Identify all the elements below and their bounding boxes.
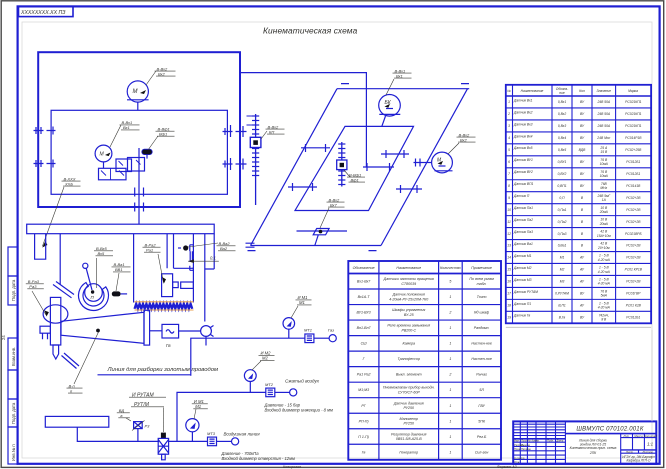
svg-text:24В 50А: 24В 50А xyxy=(596,124,610,128)
svg-text:РУ250: РУ250 xyxy=(403,406,414,410)
svg-text:ВВ1: ВВ1 xyxy=(115,267,123,272)
svg-text:РС0141В: РС0141В xyxy=(626,184,641,188)
svg-text:7: 7 xyxy=(508,172,510,176)
shaft mid with vertical xyxy=(363,163,394,171)
svg-text:Трансфессор: Трансфессор xyxy=(398,357,420,361)
svg-text:ВУ1-ВУ3: ВУ1-ВУ3 xyxy=(357,311,371,315)
air branch riser M2 xyxy=(177,392,266,441)
label RUTAM xyxy=(129,392,166,432)
svg-text:Датчик Ва1: Датчик Ва1 xyxy=(513,242,533,246)
svg-text:РС02+2В: РС02+2В xyxy=(626,280,641,284)
svg-text:5: 5 xyxy=(508,148,510,152)
label Va2 xyxy=(188,241,236,251)
svg-text:Реле времени замыкания: Реле времени замыкания xyxy=(387,324,430,328)
svg-text:Генератор: Генератор xyxy=(399,450,418,454)
svg-text:Регулятор давления: Регулятор давления xyxy=(391,432,427,436)
fitting MT2 xyxy=(266,388,297,397)
svg-text:РС01ГВР: РС01ГВР xyxy=(626,292,641,296)
svg-text:РС012Б1: РС012Б1 xyxy=(626,160,640,164)
svg-text:5Л: 5Л xyxy=(479,388,484,392)
svg-text:10мА: 10мА xyxy=(600,174,609,178)
svg-text:10: 10 xyxy=(507,208,511,212)
svg-text:Вх5: Вх5 xyxy=(98,251,106,256)
supply pipe xyxy=(77,427,159,441)
label inner gauge xyxy=(110,120,140,147)
svg-text:Датчик ВП1: Датчик ВП1 xyxy=(513,182,534,186)
label Ra1 xyxy=(143,243,164,283)
bearing stubs right edges xyxy=(223,125,247,170)
svg-text:0,Вх3: 0,Вх3 xyxy=(558,124,566,128)
svg-text:Датчик положения: Датчик положения xyxy=(392,293,425,297)
label Vx5 xyxy=(94,246,113,288)
label gearbox lower-left xyxy=(43,176,81,246)
motor M top xyxy=(127,81,149,110)
svg-text:Подп. дата: Подп. дата xyxy=(11,402,16,424)
top-left stamp box xyxy=(19,6,74,16)
svg-text:РП-П): РП-П) xyxy=(359,419,369,423)
clutch block upper xyxy=(116,158,145,172)
svg-text:Датчик Па3: Датчик Па3 xyxy=(513,230,533,234)
svg-text:Яд шкаф: Яд шкаф xyxy=(473,311,489,315)
pivot link xyxy=(83,263,88,268)
svg-text:АУ: АУ xyxy=(579,268,585,272)
svg-text:2: 2 xyxy=(507,112,510,116)
supply rectangle xyxy=(45,416,109,427)
svg-text:Вх2: Вх2 xyxy=(460,137,468,142)
label chain sensor xyxy=(261,124,285,139)
svg-text:РС02+2В: РС02+2В xyxy=(626,208,641,212)
inner chain with sensor xyxy=(338,142,345,187)
svg-text:М2: М2 xyxy=(560,268,565,272)
svg-text:0,Вх4: 0,Вх4 xyxy=(558,136,566,140)
svg-text:1: 1 xyxy=(449,388,451,392)
svg-text:18: 18 xyxy=(507,304,511,308)
svg-text:№: № xyxy=(507,89,511,93)
svg-text:Датчик Вх4: Датчик Вх4 xyxy=(513,134,533,138)
svg-text:Подп. дата: Подп. дата xyxy=(11,279,16,301)
svg-text:Рег.Б: Рег.Б xyxy=(477,435,487,439)
base bar xyxy=(27,224,215,234)
svg-text:0,ВУ2: 0,ВУ2 xyxy=(558,172,567,176)
svg-text:Иванов: Иванов xyxy=(521,443,530,447)
svg-text:РС014Р1В: РС014Р1В xyxy=(625,136,642,140)
svg-text:Копировал: Копировал xyxy=(283,465,301,469)
svg-text:0,ВУ1: 0,ВУ1 xyxy=(558,160,567,164)
svg-text:19: 19 xyxy=(507,316,511,320)
svg-text:Датчик Вх1: Датчик Вх1 xyxy=(513,98,533,102)
svg-text:Датчики частоты вращения: Датчики частоты вращения xyxy=(383,277,434,281)
svg-text:М: М xyxy=(133,89,138,95)
svg-text:8: 8 xyxy=(508,184,510,188)
svg-text:20мА: 20мА xyxy=(599,210,609,214)
svg-text:РС021КП1: РС021КП1 xyxy=(625,124,641,128)
svg-text:РС01 КР1В: РС01 КР1В xyxy=(625,268,643,272)
svg-text:Взам.инв.: Взам.инв. xyxy=(11,347,16,366)
outer parallelogram xyxy=(251,89,470,246)
svg-text:РУТ/М: РУТ/М xyxy=(134,402,150,408)
svg-text:4-20 мА: 4-20 мА xyxy=(598,258,611,262)
svg-text:Кинематическая прин. схема: Кинематическая прин. схема xyxy=(570,446,617,450)
svg-text:Сжатый воздух: Сжатый воздух xyxy=(285,377,320,383)
shaft crossing ticks bottom xyxy=(135,188,144,212)
svg-text:Вф1: Вф1 xyxy=(159,132,167,137)
svg-text:РС021ВРБ: РС021ВРБ xyxy=(625,232,642,236)
svg-text:24В Мос: 24В Мос xyxy=(596,136,610,140)
svg-text:Камера: Камера xyxy=(402,342,415,346)
gas line riser xyxy=(191,338,305,376)
svg-text:4-20 мА: 4-20 мА xyxy=(598,306,611,310)
svg-text:СШ: СШ xyxy=(361,342,368,346)
gearbox outer housing xyxy=(38,52,240,207)
svg-text:1:1: 1:1 xyxy=(647,442,654,447)
svg-text:10мА: 10мА xyxy=(600,162,609,166)
svg-text:МНz: МНz xyxy=(600,186,607,190)
svg-text:Линия для разборки золотым: Линия для разборки золотым проводом xyxy=(107,367,219,373)
axis end dashes xyxy=(246,84,470,251)
svg-text:Датчик Па2: Датчик Па2 xyxy=(513,218,533,222)
small sensor Va1 xyxy=(112,291,127,296)
svg-text:Датчик РУТАМ: Датчик РУТАМ xyxy=(513,290,538,294)
svg-text:РС02+2В: РС02+2В xyxy=(626,244,641,248)
label sensor Vf1 xyxy=(148,127,175,151)
svg-text:0,Ва1: 0,Ва1 xyxy=(558,244,567,248)
left bracket xyxy=(40,326,50,333)
svg-text:Вх1А-Т: Вх1А-Т xyxy=(358,295,371,299)
generator box xyxy=(150,330,162,332)
svg-text:И РУТАМ: И РУТАМ xyxy=(132,392,154,398)
svg-text:Наименование: Наименование xyxy=(521,89,544,93)
svg-text:Рычаг: Рычаг xyxy=(476,373,487,377)
svg-text:МТ1: МТ1 xyxy=(304,328,312,333)
fitting MT3 xyxy=(208,437,239,446)
svg-text:Выкл. элемент: Выкл. элемент xyxy=(396,373,422,377)
cylinder Ra1 xyxy=(162,274,179,297)
title block xyxy=(513,421,656,464)
components table xyxy=(348,261,501,460)
svg-text:МТ2: МТ2 xyxy=(265,382,274,387)
label M1 air xyxy=(192,399,208,419)
svg-text:ВУ-25: ВУ-25 xyxy=(404,313,414,317)
svg-text:1: 1 xyxy=(449,326,451,330)
svg-text:14: 14 xyxy=(507,256,511,260)
svg-text:8 В: 8 В xyxy=(601,318,607,322)
svg-text:Датчик П: Датчик П xyxy=(513,194,530,198)
chain shaft with sensor xyxy=(247,114,260,205)
svg-text:Н.контр.: Н.контр. xyxy=(514,456,525,460)
svg-text:Количество: Количество xyxy=(440,266,460,270)
svg-text:Инв.№ п: Инв.№ п xyxy=(11,444,16,461)
svg-text:Формат А2: Формат А2 xyxy=(497,465,517,469)
svg-text:РС012Б1: РС012Б1 xyxy=(626,172,640,176)
label pump xyxy=(320,197,345,228)
svg-text:Ва2: Ва2 xyxy=(220,246,228,251)
svg-text:11: 11 xyxy=(507,220,511,224)
svg-text:0,Вх1: 0,Вх1 xyxy=(558,100,566,104)
svg-text:Датчик ВУ1: Датчик ВУ1 xyxy=(513,158,533,162)
label Va1 xyxy=(112,262,131,291)
label M2 xyxy=(252,351,275,370)
inner channel xyxy=(167,234,193,269)
svg-text:СТ80039: СТ80039 xyxy=(401,282,416,286)
svg-text:4-20 мА: 4-20 мА xyxy=(598,270,611,274)
svg-text:табл.: табл. xyxy=(477,282,487,286)
svg-text:ние: ние xyxy=(559,91,565,95)
svg-text:М1;М3: М1;М3 xyxy=(358,388,369,392)
gauge inner left xyxy=(95,145,112,168)
svg-text:Датчик Вх3: Датчик Вх3 xyxy=(513,122,533,126)
svg-text:П 1-П): П 1-П) xyxy=(358,435,369,439)
svg-text:Вх7: Вх7 xyxy=(330,202,338,207)
svg-text:2: 2 xyxy=(448,373,451,377)
svg-text:1: 1 xyxy=(449,404,451,408)
gearbox inner housing xyxy=(51,110,227,194)
valve bowtie xyxy=(117,85,658,469)
svg-text:1: 1 xyxy=(449,419,451,423)
svg-text:0,Па1: 0,Па1 xyxy=(558,208,567,212)
svg-text:Ра1: Ра1 xyxy=(146,248,153,253)
svg-text:РС01 К2В: РС01 К2В xyxy=(626,304,642,308)
svg-text:Значение: Значение xyxy=(597,89,612,93)
svg-text:0.1: 0.1 xyxy=(210,256,216,261)
pump bottom xyxy=(297,229,348,246)
gauge M1 gas xyxy=(283,318,295,339)
svg-text:0,Па3: 0,Па3 xyxy=(558,232,567,236)
end roller circle xyxy=(201,326,212,337)
svg-text:Примечание: Примечание xyxy=(471,266,492,270)
svg-text:15: 15 xyxy=(507,268,511,272)
sector gauge xyxy=(85,284,103,302)
svg-text:СУ70/СТ-60Р: СУ70/СТ-60Р xyxy=(398,391,421,395)
svg-text:15А+10м: 15А+10м xyxy=(597,234,611,238)
svg-text:Воздушная линия: Воздушная линия xyxy=(224,431,261,436)
svg-text:По всем узлам: По всем узлам xyxy=(469,277,494,281)
svg-text:15 В: 15 В xyxy=(600,150,608,154)
svg-text:Обозначение: Обозначение xyxy=(353,266,375,270)
svg-text:0,ВП1: 0,ВП1 xyxy=(557,184,566,188)
svg-text:Газ: Газ xyxy=(328,328,334,333)
svg-text:0,Вх2: 0,Вх2 xyxy=(558,112,566,116)
svg-text:ШВМУЛС 070102.001К: ШВМУЛС 070102.001К xyxy=(576,427,643,433)
svg-text:Вх2: Вх2 xyxy=(158,71,166,76)
label Ra3 xyxy=(26,279,46,315)
svg-text:Кол: Кол xyxy=(579,89,585,93)
svg-text:Изм: Изм xyxy=(514,438,519,442)
thick pipe under caption xyxy=(98,374,191,376)
svg-text:Сил-ген: Сил-ген xyxy=(475,450,489,454)
svg-text:Датчик Гв: Датчик Гв xyxy=(513,314,531,318)
svg-text:1: 1 xyxy=(449,357,451,361)
sector horseshoe xyxy=(79,283,109,311)
svg-text:ВДВ: ВДВ xyxy=(579,148,586,152)
svg-text:Датчик Вх2: Датчик Вх2 xyxy=(513,110,533,114)
svg-text:0,Па2: 0,Па2 xyxy=(558,220,567,224)
svg-text:Гв: Гв xyxy=(362,450,366,454)
clutch block lower xyxy=(99,168,127,180)
sensor Va2 with capacitor xyxy=(178,245,219,271)
svg-text:24В 50А: 24В 50А xyxy=(596,112,610,116)
svg-text:24В 50А: 24В 50А xyxy=(596,100,610,104)
label inner chain xyxy=(344,170,365,182)
svg-text:0,Вх5: 0,Вх5 xyxy=(558,148,566,152)
svg-text:М3: М3 xyxy=(560,280,565,284)
svg-text:Манометр: Манометр xyxy=(400,417,418,421)
right legs xyxy=(204,234,206,322)
svg-text:Марка: Марка xyxy=(628,89,638,93)
svg-text:Датчик Па1: Датчик Па1 xyxy=(513,206,533,210)
svg-text:Петров: Петров xyxy=(521,447,531,451)
svg-text:1: 1 xyxy=(449,450,451,454)
svg-text:13: 13 xyxy=(507,244,511,248)
label M1 gas xyxy=(291,295,312,318)
svg-text:РС02+25В: РС02+25В xyxy=(625,148,642,152)
svg-text:МТ3: МТ3 xyxy=(207,431,216,436)
svg-text:1: 1 xyxy=(508,100,510,104)
label VD xyxy=(117,408,131,421)
svg-text:Вх1: Вх1 xyxy=(123,125,130,130)
spindle column xyxy=(50,297,60,345)
svg-text:АУ: АУ xyxy=(579,256,585,260)
chain sensor box xyxy=(250,137,261,147)
svg-text:РУ250: РУ250 xyxy=(403,422,414,426)
svg-text:Ра1 Ра2: Ра1 Ра2 xyxy=(357,373,371,377)
gauge M2 xyxy=(244,370,256,393)
svg-text:2: 2 xyxy=(448,311,451,315)
lever diagonals xyxy=(53,282,74,298)
svg-text:3: 3 xyxy=(508,124,510,128)
svg-text:М1: М1 xyxy=(560,256,565,260)
svg-text:Кафедра ЛГП-О: Кафедра ЛГП-О xyxy=(626,458,651,462)
svg-text:Лит.: Лит. xyxy=(622,434,630,438)
leg 2 xyxy=(59,234,61,285)
svg-text:Масштаб: Масштаб xyxy=(644,434,657,438)
label motor top xyxy=(146,66,176,85)
svg-text:5: 5 xyxy=(449,280,451,284)
hatch strip xyxy=(135,304,193,309)
svg-text:Вф1: Вф1 xyxy=(351,177,359,182)
svg-text:М1: М1 xyxy=(299,300,305,305)
svg-text:РС021КП1: РС021КП1 xyxy=(625,112,641,116)
svg-text:Рандомн.: Рандомн. xyxy=(474,326,490,330)
svg-text:1: 1 xyxy=(449,435,451,439)
sensors table right xyxy=(506,85,651,323)
regulator RUT xyxy=(158,433,168,460)
svg-text:Р3: Р3 xyxy=(145,424,151,429)
fitting MT1 xyxy=(305,334,336,343)
svg-text:Датчик М1: Датчик М1 xyxy=(513,254,532,258)
svg-text:ХХБ: ХХБ xyxy=(64,181,73,186)
svg-text:№ докум.: № докум. xyxy=(528,438,540,442)
svg-text:Вх1: Вх1 xyxy=(396,73,403,78)
svg-text:1: 1 xyxy=(449,295,451,299)
svg-text:12: 12 xyxy=(507,232,511,236)
svg-text:2ПК: 2ПК xyxy=(589,451,597,455)
svg-text:Масса: Масса xyxy=(634,434,643,438)
svg-text:Датчик М2: Датчик М2 xyxy=(513,266,532,270)
gauge M1 air xyxy=(186,419,199,442)
svg-text:Настен-ное: Настен-ное xyxy=(471,342,492,346)
svg-text:5мА: 5мА xyxy=(601,294,608,298)
svg-text:Датчик П1: Датчик П1 xyxy=(513,302,531,306)
svg-text:6: 6 xyxy=(508,160,510,164)
svg-text:Входной диаметр инжекции -: Входной диаметр инжекции - 8 мм xyxy=(265,408,333,413)
svg-text:АУ: АУ xyxy=(579,304,585,308)
svg-text:9: 9 xyxy=(508,196,510,200)
svg-text:16: 16 xyxy=(507,280,511,284)
svg-text:Кинематическая схема: Кинематическая схема xyxy=(263,26,358,36)
leg 1 xyxy=(35,234,46,260)
gauge BK xyxy=(379,95,401,127)
bearing stubs left edges xyxy=(34,127,56,168)
svg-text:0,П: 0,П xyxy=(559,196,565,200)
svg-text:17: 17 xyxy=(507,292,511,296)
svg-text:Наименование: Наименование xyxy=(396,266,421,270)
svg-text:Настен-ное: Настен-ное xyxy=(471,357,492,361)
label cone p/p xyxy=(67,332,99,393)
svg-text:Точно: Точно xyxy=(477,295,487,299)
svg-text:Датчик давления: Датчик давления xyxy=(393,401,424,405)
svg-text:Листов: Листов xyxy=(641,450,653,454)
svg-text:4-20мА-РУ-25х20М-7К0: 4-20мА-РУ-25х20М-7К0 xyxy=(389,297,428,301)
svg-text:24: 24 xyxy=(1,335,6,340)
svg-text:Ра3: Ра3 xyxy=(29,284,37,289)
svg-text:Входной диаметр отверстия -: Входной диаметр отверстия - 12мм xyxy=(222,456,295,461)
svg-text:Датчик М3: Датчик М3 xyxy=(513,278,532,282)
svg-text:20+10м: 20+10м xyxy=(597,246,610,250)
svg-text:Подп.: Подп. xyxy=(547,438,554,442)
svg-text:Шкафы управления: Шкафы управления xyxy=(392,308,425,312)
wheel xyxy=(43,305,68,323)
svg-text:ХХХХХХХХ.ХХ ПЗ: ХХХХХХХХ.ХХ ПЗ xyxy=(20,10,66,16)
svg-text:20мА: 20мА xyxy=(599,222,609,226)
svg-text:5ПК: 5ПК xyxy=(478,419,486,423)
label gauge BV xyxy=(448,132,476,154)
svg-text:0,РУТАМ: 0,РУТАМ xyxy=(555,292,569,296)
press block right xyxy=(181,282,194,288)
svg-text:ГВУ: ГВУ xyxy=(478,404,485,408)
svg-text:КП: КП xyxy=(269,129,274,134)
svg-text:В,Гв: В,Гв xyxy=(559,316,566,320)
svg-text:Вп1-Вп7: Вп1-Вп7 xyxy=(357,326,372,330)
svg-text:1: 1 xyxy=(449,342,451,346)
svg-text:РС012Б1: РС012Б1 xyxy=(626,316,640,320)
gauge BV right xyxy=(422,152,453,173)
main vertical shaft through gearbox xyxy=(138,148,140,224)
svg-text:Датчик Вх5: Датчик Вх5 xyxy=(513,146,533,150)
svg-text:Вх1-Вх7: Вх1-Вх7 xyxy=(357,280,371,284)
link line gearbox to shaft xyxy=(240,73,366,167)
lower diagonal lever xyxy=(62,353,80,369)
svg-text:АУ: АУ xyxy=(579,280,585,284)
svg-text:Дата: Дата xyxy=(556,438,564,442)
svg-text:Утв.: Утв. xyxy=(514,460,520,464)
svg-text:Лист: Лист xyxy=(625,450,634,454)
bearing shafts on edges xyxy=(288,144,422,193)
line regulator to MT3 xyxy=(169,440,208,442)
svg-text:Пневмоклапан прибор выходн.: Пневмоклапан прибор выходн. xyxy=(383,386,435,390)
svg-text:РС02+2В: РС02+2В xyxy=(626,196,641,200)
svg-text:РС02+2В: РС02+2В xyxy=(626,256,641,260)
label gauge BK xyxy=(386,68,412,95)
inner parallelogram xyxy=(295,126,414,210)
svg-text:М1: М1 xyxy=(195,404,201,409)
svg-text:М2: М2 xyxy=(262,356,268,361)
cone drum xyxy=(61,312,144,343)
svg-text:РС02+2В: РС02+2В xyxy=(626,220,641,224)
svg-text:РС021КП1: РС021КП1 xyxy=(625,100,641,104)
sensor Vf1 xyxy=(142,149,152,158)
svg-text:Датчик ВУ2: Датчик ВУ2 xyxy=(513,170,533,174)
svg-text:В,П1: В,П1 xyxy=(558,304,566,308)
